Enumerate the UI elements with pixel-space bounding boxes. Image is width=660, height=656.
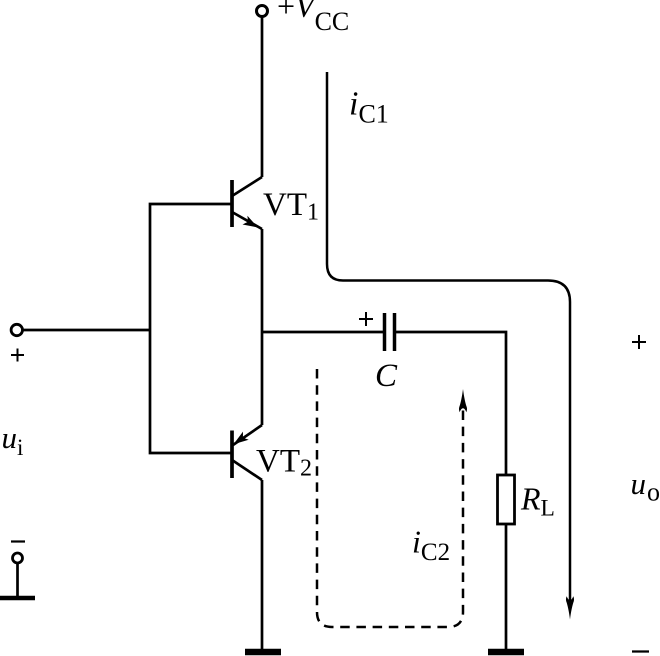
wire VT1 base rail to VT2 base <box>150 204 232 453</box>
arrowhead iC1 <box>566 596 574 619</box>
wire Vcc to VT1 collector <box>261 17 264 178</box>
wire RL to ground <box>505 524 508 650</box>
wire output to capacitor <box>262 331 383 334</box>
wire input <box>23 329 151 332</box>
current path iC2 <box>317 369 463 627</box>
transistor VT1 <box>232 177 262 229</box>
resistor RL <box>498 475 515 524</box>
arrowhead iC2 <box>459 389 467 412</box>
capacitor C <box>385 313 395 351</box>
wire input - to ground <box>16 563 19 597</box>
wire emitter rail VT1 to VT2 <box>261 229 264 425</box>
ground (VT2) <box>245 649 281 656</box>
svg-text:C: C <box>375 358 398 394</box>
label + (capacitor) <box>359 312 373 326</box>
label + (input) <box>11 349 24 362</box>
wire capacitor to RL <box>396 332 506 475</box>
ground (input) <box>0 596 35 601</box>
label - (input) <box>11 540 25 542</box>
label + (output) <box>632 335 646 349</box>
ground (RL) <box>488 649 524 656</box>
wire VT2 collector to ground <box>261 480 264 650</box>
transistor VT2 <box>232 425 262 480</box>
terminal input - <box>13 553 23 563</box>
label - (output) <box>632 650 649 652</box>
current path iC1 <box>327 72 570 601</box>
terminal +Vcc <box>257 6 268 17</box>
terminal input + <box>11 324 22 335</box>
